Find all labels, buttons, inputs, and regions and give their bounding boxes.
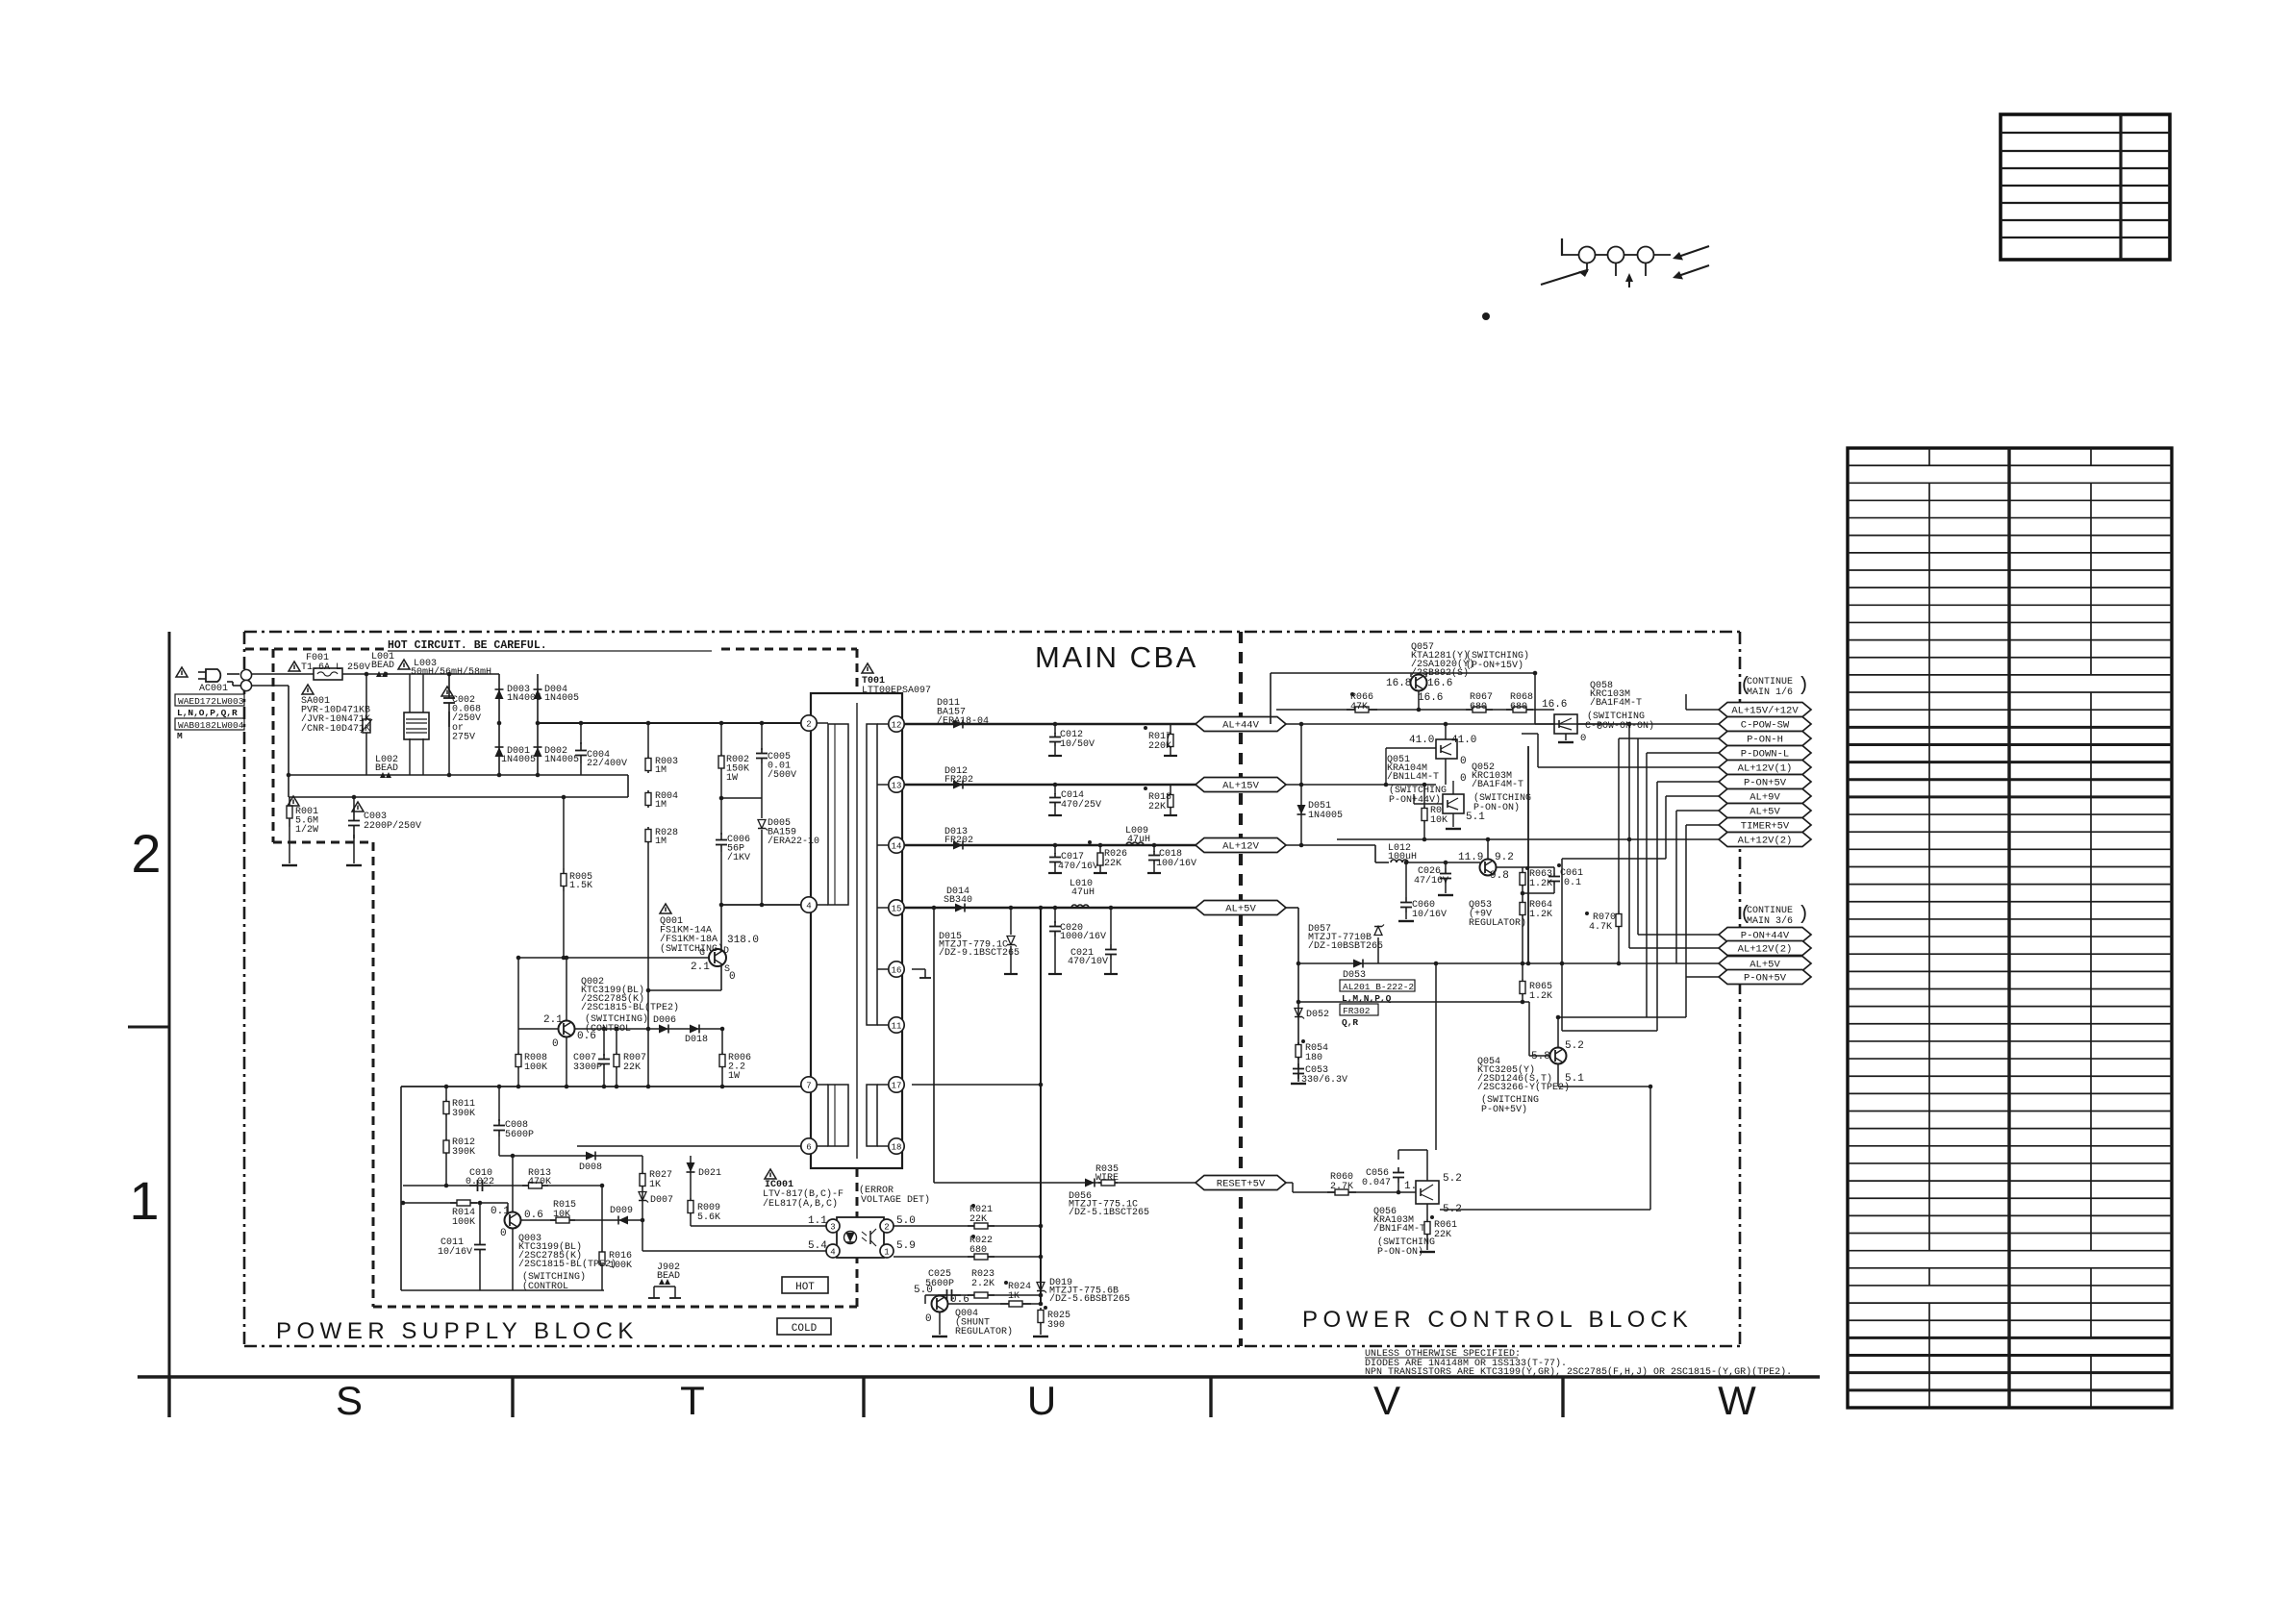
- label Q056: [1373, 1207, 1425, 1235]
- svg-text:AL+5V: AL+5V: [1750, 807, 1780, 818]
- svg-text:WAB0182LW004: WAB0182LW004: [178, 720, 244, 731]
- svg-text:1M: 1M: [655, 765, 667, 776]
- diode D014: [955, 904, 965, 912]
- wire D008 line: [499, 1155, 642, 1157]
- label D052: [1306, 1010, 1329, 1020]
- svg-text:REGULATOR): REGULATOR): [955, 1326, 1013, 1337]
- svg-text:4: 4: [830, 1247, 835, 1257]
- wire Q058 drop: [1535, 673, 1554, 724]
- capacitor C018: [1147, 845, 1161, 873]
- label C005: [768, 752, 796, 781]
- wire flag AL+5Vb lead: [1676, 962, 1719, 964]
- wire rail 15V: [904, 784, 1196, 787]
- svg-text:2.1: 2.1: [691, 962, 710, 973]
- flag P-ON+5V: [1719, 775, 1811, 789]
- wire Q003 emitter: [512, 1229, 514, 1290]
- wire bridge left column: [498, 674, 500, 775]
- svg-text:18: 18: [892, 1142, 902, 1152]
- wire R014 line: [403, 1203, 508, 1212]
- label SA001: [301, 696, 370, 735]
- flag AL+12V(2) lower: [1719, 941, 1811, 956]
- svg-text:L,N,O,P,Q,R: L,N,O,P,Q,R: [177, 708, 238, 718]
- inductor L012: [1391, 860, 1408, 862]
- wire Q003 collector: [512, 1156, 514, 1212]
- transistor Q057: [1411, 673, 1427, 710]
- capacitor C010h: [469, 1180, 491, 1191]
- svg-text:0.1: 0.1: [1564, 878, 1581, 888]
- warning triangle C002: [441, 687, 453, 696]
- ground C060: [1398, 920, 1414, 922]
- svg-text:/EL817(A,B,C): /EL817(A,B,C): [763, 1198, 838, 1210]
- svg-text:680: 680: [969, 1245, 987, 1256]
- wire Q052 base: [1414, 794, 1443, 804]
- label C060: [1412, 900, 1447, 920]
- resistor R001: [287, 797, 292, 863]
- svg-text:1: 1: [129, 1170, 159, 1231]
- svg-text:(SWITCHING): (SWITCHING): [660, 943, 723, 955]
- svg-text:/1KV: /1KV: [727, 852, 750, 863]
- svg-text:7: 7: [806, 1081, 811, 1090]
- svg-text:5.2: 5.2: [1565, 1040, 1584, 1052]
- diode D011: [953, 720, 963, 729]
- label Q057: [1411, 642, 1474, 679]
- warning triangle L003: [398, 660, 410, 669]
- label Q056 switching: [1377, 1237, 1435, 1258]
- wire pin2 stub: [817, 722, 828, 724]
- svg-text:AL+5V: AL+5V: [1225, 904, 1256, 915]
- wire cross y893: [1562, 858, 1666, 860]
- svg-text:Q,R: Q,R: [1342, 1017, 1358, 1028]
- transistor Q058: [1554, 714, 1577, 734]
- wire R066 rail: [1276, 709, 1554, 711]
- capacitor C061: [1548, 863, 1561, 893]
- svg-text:17: 17: [892, 1081, 902, 1090]
- label C026: [1414, 866, 1448, 887]
- svg-text:1: 1: [884, 1247, 889, 1257]
- svg-text:16.6: 16.6: [1418, 692, 1443, 704]
- ground R061: [1420, 1251, 1435, 1253]
- svg-text:9.8: 9.8: [1490, 870, 1509, 882]
- label R002: [726, 755, 749, 784]
- label T001: [862, 676, 931, 696]
- wire AC lower vertical: [288, 686, 290, 797]
- title POWER SUPPLY BLOCK: [276, 1318, 639, 1344]
- label Q053: [1469, 900, 1526, 929]
- flag P-DOWN-L: [1719, 746, 1811, 761]
- border block divider dashed: [1239, 632, 1243, 1346]
- resistor R018: [1144, 785, 1177, 815]
- svg-text:16: 16: [892, 965, 902, 975]
- wire Q002 base: [518, 1028, 558, 1030]
- wire flag P-ON+5V lead: [1657, 781, 1719, 783]
- label WAB0182LW004: [175, 718, 244, 731]
- wire snubber mid: [721, 797, 762, 799]
- label 0.1: [491, 1206, 510, 1217]
- flag AL+12V(1): [1719, 761, 1811, 775]
- resistor R054: [1296, 1039, 1305, 1060]
- svg-text:M: M: [177, 731, 183, 741]
- label Q051 voltages: [1409, 735, 1476, 785]
- label Q052 switching: [1473, 792, 1531, 813]
- label Q054 voltages: [1531, 1040, 1584, 1085]
- label R012: [452, 1137, 475, 1158]
- svg-text:1N4005: 1N4005: [1308, 811, 1343, 821]
- capacitor C053: [1293, 1063, 1304, 1079]
- svg-text:LTT00EPSA097: LTT00EPSA097: [862, 686, 931, 696]
- svg-text:5.1: 5.1: [1466, 812, 1485, 823]
- node opto pin 4: [826, 1244, 840, 1258]
- node pin 6: [801, 1138, 817, 1154]
- wire Q004 emitter: [939, 1312, 941, 1335]
- wire pin15 stub: [877, 907, 889, 909]
- capacitor C006: [716, 801, 727, 905]
- wire opto pin1 line: [894, 1256, 1041, 1258]
- svg-text:AL+12V(1): AL+12V(1): [1738, 763, 1793, 775]
- label C025: [925, 1269, 954, 1289]
- wire pin7 stub: [817, 1084, 828, 1086]
- flag AL+5V lower: [1719, 957, 1811, 971]
- node pin 17: [889, 1077, 904, 1092]
- ground R001: [282, 864, 297, 866]
- svg-text:5.6K: 5.6K: [697, 1212, 720, 1223]
- title POWER CONTROL BLOCK: [1302, 1307, 1693, 1333]
- svg-text:C-POW-ON-ON): C-POW-ON-ON): [1585, 720, 1654, 732]
- frame col label U: [1027, 1378, 1056, 1423]
- label IC001 function: [859, 1185, 930, 1206]
- label R018: [1148, 792, 1171, 812]
- label D013: [944, 827, 973, 846]
- svg-text:1.2K: 1.2K: [1529, 910, 1552, 920]
- transistor Q001: [709, 949, 726, 966]
- svg-text:MAIN 3/6: MAIN 3/6: [1747, 915, 1793, 927]
- svg-text:4.7K: 4.7K: [1589, 922, 1612, 933]
- svg-text:1K: 1K: [1008, 1291, 1020, 1302]
- diode D006: [659, 1025, 668, 1034]
- svg-text:P-ON-H: P-ON-H: [1747, 735, 1783, 746]
- svg-text:10/16V: 10/16V: [1412, 909, 1447, 920]
- svg-text:390: 390: [1047, 1320, 1065, 1331]
- label C008: [505, 1120, 534, 1140]
- capacitor C026: [1440, 862, 1451, 893]
- capacitor C007: [598, 1029, 610, 1087]
- warning triangle T001: [862, 663, 873, 673]
- wire reset feed: [1286, 1183, 1416, 1192]
- transformer primary winding lower: [828, 1085, 848, 1146]
- resistor R063: [1520, 866, 1529, 893]
- label R070: [1585, 912, 1616, 933]
- wire D053 line2: [1298, 963, 1529, 1002]
- svg-text:5.8: 5.8: [1531, 1051, 1550, 1062]
- wire flag AL+15V/+12V lead: [1686, 709, 1719, 711]
- svg-text:5.4: 5.4: [808, 1240, 827, 1252]
- label D012: [944, 766, 973, 786]
- svg-text:/DZ-9.1BSCT265: /DZ-9.1BSCT265: [939, 947, 1020, 959]
- table right parts table: [1848, 448, 2172, 1408]
- border hot area right dashed upper: [856, 649, 859, 693]
- svg-text:AL201 B-222-2: AL201 B-222-2: [1343, 982, 1414, 992]
- wire bottom return: [401, 1289, 604, 1291]
- resistor R021: [968, 1204, 994, 1229]
- fuse F001: [314, 668, 342, 680]
- svg-text:NPN TRANSISTORS ARE KTC3199(Y,: NPN TRANSISTORS ARE KTC3199(Y,GR), 2SC27…: [1365, 1366, 1792, 1378]
- resistor R017: [1144, 724, 1177, 756]
- ground Q058: [1558, 741, 1573, 743]
- svg-text:2.2K: 2.2K: [971, 1279, 994, 1289]
- wire Q002 collector: [566, 958, 567, 1020]
- svg-text:13: 13: [892, 781, 902, 790]
- label R006: [728, 1053, 751, 1082]
- svg-text:0: 0: [729, 971, 736, 983]
- flag AL+5V: [1719, 804, 1811, 818]
- node pin 11: [889, 1017, 904, 1033]
- resistor R064: [1520, 893, 1525, 963]
- svg-text:/DZ-5.6BSBT265: /DZ-5.6BSBT265: [1049, 1293, 1130, 1305]
- label FR302 box: [1340, 1004, 1378, 1016]
- svg-text:P-ON+5V): P-ON+5V): [1481, 1104, 1527, 1115]
- svg-text:1N4005: 1N4005: [544, 693, 579, 704]
- svg-text:22K: 22K: [1434, 1230, 1451, 1240]
- svg-text:(P-ON+15V): (P-ON+15V): [1466, 660, 1523, 671]
- label D001: [501, 746, 536, 765]
- svg-text:390K: 390K: [452, 1147, 475, 1158]
- label C012: [1060, 730, 1095, 750]
- optocoupler IC001: [837, 1217, 884, 1258]
- resistor R027 diode D007 column: [639, 1156, 648, 1251]
- transistor Q052: [1443, 794, 1464, 813]
- zener D005: [758, 798, 768, 905]
- bead J902: [648, 1279, 681, 1298]
- flag AL+12V: [1196, 838, 1286, 853]
- warning triangle Q001: [660, 904, 671, 913]
- label R015: [553, 1200, 576, 1220]
- label Q002: [581, 977, 679, 1013]
- label D051: [1308, 801, 1343, 821]
- svg-text:470/25V: 470/25V: [1061, 799, 1101, 811]
- warning triangle F001: [289, 662, 300, 671]
- wire flag AL+12V(2)b lead: [1629, 947, 1719, 949]
- svg-text:22/400V: 22/400V: [587, 758, 627, 769]
- border outer dash-dot top: [244, 631, 1740, 634]
- wire Q001 gate: [518, 957, 709, 959]
- wire v1493 down: [1435, 963, 1437, 1150]
- label R067: [1470, 692, 1493, 712]
- svg-text:D008: D008: [579, 1162, 602, 1173]
- wire bundle v1732: [1665, 796, 1667, 859]
- wire rail 44V: [904, 723, 1196, 726]
- resistor R008: [516, 958, 521, 1087]
- diode D009: [618, 1216, 628, 1225]
- svg-text:D053: D053: [1343, 970, 1366, 981]
- label COLD box: [777, 1318, 831, 1335]
- svg-text:FR302: FR302: [1343, 1006, 1371, 1016]
- label Q002 switching: [585, 1013, 648, 1035]
- svg-text:10K: 10K: [1430, 815, 1448, 826]
- svg-text:1N4005: 1N4005: [544, 755, 579, 765]
- label D011: [937, 698, 989, 727]
- svg-text:5.9: 5.9: [896, 1240, 916, 1252]
- label continue main 3/6: [1740, 904, 1809, 927]
- flag AL+9V: [1719, 789, 1811, 804]
- wire R015 line: [520, 1219, 642, 1221]
- node opto pin 2: [880, 1219, 894, 1233]
- resistor R061: [1424, 1204, 1434, 1250]
- zener D015: [1004, 908, 1018, 974]
- resistor R015: [550, 1217, 575, 1223]
- label opto voltages: [808, 1215, 916, 1252]
- svg-text:0: 0: [1460, 773, 1467, 785]
- wire pin7 line: [401, 1086, 801, 1087]
- svg-text:100uH: 100uH: [1388, 852, 1417, 862]
- svg-text:47K: 47K: [1350, 702, 1368, 712]
- border outer dash-dot right: [1739, 632, 1742, 1346]
- svg-text:5.2: 5.2: [1443, 1173, 1462, 1185]
- wire flag TIMER+5V lead: [1686, 824, 1719, 826]
- wire pin16 bracket: [912, 969, 931, 978]
- svg-text:1M: 1M: [655, 837, 667, 847]
- resistor chain R003 R004 R028: [645, 723, 651, 1087]
- label L001 BEAD: [371, 652, 394, 671]
- junction dots: [287, 671, 1653, 1307]
- svg-text:/BA1F4M-T: /BA1F4M-T: [1472, 779, 1523, 790]
- svg-text:AL+12V(2): AL+12V(2): [1738, 944, 1793, 956]
- icon legend dot: [1482, 312, 1490, 320]
- label R064: [1529, 900, 1552, 920]
- svg-text:S: S: [336, 1378, 363, 1423]
- label C020: [1060, 923, 1106, 942]
- svg-text:T: T: [680, 1378, 705, 1423]
- wire bundle v1624: [1561, 859, 1563, 1031]
- label Q054: [1477, 1057, 1570, 1093]
- svg-text:14: 14: [892, 841, 902, 851]
- svg-text:/BN1L4M-T: /BN1L4M-T: [1387, 771, 1439, 783]
- label R008: [524, 1053, 547, 1073]
- transistor Q003: [505, 1212, 521, 1229]
- label R060: [1330, 1172, 1353, 1192]
- svg-text:318.0: 318.0: [727, 935, 759, 946]
- svg-text:D052: D052: [1306, 1010, 1329, 1020]
- svg-text:41.0: 41.0: [1451, 735, 1476, 746]
- label AL201 box: [1340, 980, 1415, 992]
- label Q003 switching: [522, 1271, 586, 1292]
- label D018: [685, 1035, 708, 1045]
- wire junction column: [1040, 908, 1042, 1304]
- wire pin12 stub: [877, 723, 889, 725]
- svg-text:100/16V: 100/16V: [1156, 858, 1196, 869]
- svg-text:/BA1F4M-T: /BA1F4M-T: [1590, 697, 1642, 709]
- wire pin6 stub: [817, 1145, 828, 1147]
- svg-text:POWER CONTROL BLOCK: POWER CONTROL BLOCK: [1302, 1307, 1693, 1333]
- wire rail 12V: [904, 844, 1196, 847]
- wire flag P-ON+5Vb lead: [1686, 976, 1719, 978]
- label Q058 switching: [1580, 711, 1654, 744]
- label HOT box: [782, 1277, 828, 1293]
- wire AL44 feed: [1286, 723, 1629, 725]
- warning triangle AC001: [176, 667, 188, 677]
- border hot area left dashed upper: [272, 649, 275, 842]
- wire pin16 stub: [877, 968, 889, 970]
- frame col label S: [336, 1378, 363, 1423]
- wire Q051 collector: [1445, 724, 1447, 739]
- svg-text:/2SC3266-Y(TPE2): /2SC3266-Y(TPE2): [1477, 1082, 1570, 1093]
- capacitor C012: [1048, 724, 1062, 756]
- wire al5 low line: [1298, 962, 1436, 964]
- wire pin13 stub: [877, 784, 889, 786]
- svg-text:AL+12V(2): AL+12V(2): [1738, 836, 1793, 847]
- label Q004: [955, 1309, 1013, 1337]
- svg-text:15: 15: [892, 904, 902, 913]
- label QR: [1342, 1017, 1358, 1028]
- wire AC neutral: [227, 682, 289, 686]
- capacitor C020: [1048, 908, 1062, 974]
- capacitor C008: [493, 1087, 505, 1156]
- wire bundle v1589: [1527, 746, 1529, 963]
- svg-text:AL+9V: AL+9V: [1750, 792, 1780, 804]
- wire Q054 emitter: [1558, 1064, 1650, 1087]
- label C018: [1156, 849, 1196, 869]
- transformer T001 core: [856, 703, 858, 1159]
- svg-text:P-ON-ON): P-ON-ON): [1377, 1246, 1423, 1258]
- label C014: [1061, 790, 1101, 811]
- label R028: [655, 828, 678, 847]
- label LNOPQR: [177, 708, 238, 718]
- svg-text:0: 0: [552, 1038, 559, 1050]
- label J902: [657, 1262, 680, 1282]
- svg-text:P-DOWN-L: P-DOWN-L: [1741, 749, 1789, 761]
- svg-text:22K: 22K: [1104, 859, 1121, 869]
- label Q051 switching: [1389, 785, 1447, 806]
- border outer dash-dot left: [243, 632, 246, 1345]
- label R016: [609, 1251, 632, 1271]
- resistor R026: [1088, 840, 1107, 873]
- label Q056 voltages: [1404, 1173, 1462, 1215]
- wire reset drop: [933, 908, 935, 1183]
- wire bundle v1692: [1626, 892, 1628, 894]
- svg-text:47uH: 47uH: [1071, 887, 1095, 898]
- frame row label 1: [129, 1170, 159, 1231]
- label R022: [969, 1236, 993, 1256]
- svg-text:2.1: 2.1: [543, 1014, 563, 1026]
- resistor R035: [1098, 1180, 1118, 1186]
- label IC001: [763, 1180, 843, 1210]
- connector AC001 pin circles: [240, 669, 251, 690]
- node pin 12: [889, 716, 904, 732]
- svg-text:MAIN 1/6: MAIN 1/6: [1747, 687, 1793, 698]
- svg-text:/DZ-5.1BSCT265: /DZ-5.1BSCT265: [1069, 1207, 1149, 1218]
- svg-text:CONTINUE: CONTINUE: [1747, 677, 1793, 687]
- wire bundle v1753a: [1685, 694, 1687, 710]
- svg-text:D009: D009: [610, 1206, 633, 1216]
- frame bottom axis line: [138, 1375, 1820, 1378]
- wire pin11 stub: [877, 1024, 889, 1026]
- diode D003: [495, 689, 504, 699]
- label R035: [1095, 1164, 1119, 1184]
- svg-text:BEAD: BEAD: [657, 1271, 680, 1282]
- label Q053 voltages: [1458, 852, 1514, 882]
- label Q003 voltages: [500, 1210, 543, 1239]
- svg-text:0.022: 0.022: [466, 1177, 494, 1187]
- inductor L010: [1071, 905, 1089, 908]
- warning triangle IC001: [765, 1169, 776, 1179]
- svg-text:P-ON+5V: P-ON+5V: [1744, 778, 1787, 789]
- label R011: [452, 1099, 475, 1119]
- wire Q051 base: [1386, 748, 1436, 785]
- border hot area left dashed lower: [372, 842, 375, 1307]
- svg-text:RESET+5V: RESET+5V: [1217, 1179, 1266, 1190]
- wire choke stub lower: [410, 739, 423, 775]
- flag C-POW-SW: [1719, 717, 1811, 732]
- flag RESET+5V: [1196, 1176, 1286, 1190]
- label R025: [1047, 1311, 1070, 1331]
